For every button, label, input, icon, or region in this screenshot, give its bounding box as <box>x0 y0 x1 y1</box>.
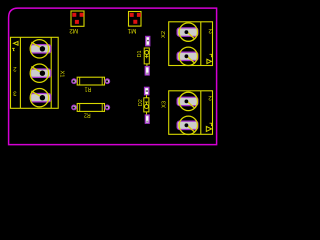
pad X2.1 <box>177 47 198 65</box>
svg-text:X3: X3 <box>162 101 168 108</box>
connector X3 <box>169 91 213 135</box>
connector X1 <box>11 37 59 108</box>
pad X3.2 <box>177 92 198 110</box>
diode D2 body <box>144 95 149 115</box>
svg-text:X2: X2 <box>161 31 167 38</box>
svg-text:D2: D2 <box>138 99 144 106</box>
R2 lead pad left <box>72 105 77 110</box>
pad X2.2 <box>177 23 198 41</box>
pad X3.1 <box>177 116 198 134</box>
X2 pin label 1 <box>210 54 213 57</box>
X1 pin-1 triangle marker <box>14 41 19 45</box>
svg-text:M1: M1 <box>127 27 136 34</box>
X3 pin-1 triangle marker <box>206 126 211 131</box>
R1 lead pad right <box>105 79 110 84</box>
connector X2 <box>169 22 213 66</box>
D1 pad 2 (bottom) <box>145 67 149 76</box>
R2 lead pad right <box>105 105 110 110</box>
svg-text:2: 2 <box>13 65 17 72</box>
diode D1 body <box>144 48 149 66</box>
pad X1.3 <box>30 89 51 107</box>
D2 pad 2 (bottom) <box>145 115 149 123</box>
svg-text:X1: X1 <box>59 70 65 77</box>
resistor R2 <box>74 104 107 112</box>
mount pad M1 <box>129 12 142 27</box>
svg-text:D1: D1 <box>137 50 143 57</box>
X2 pin-1 triangle marker <box>207 59 211 63</box>
svg-text:2: 2 <box>208 94 212 101</box>
svg-text:M2: M2 <box>69 27 78 34</box>
board outline <box>9 8 217 145</box>
X3 pin label 1 <box>210 123 213 126</box>
mount pad M2 <box>71 11 84 26</box>
X1 pin label 1 <box>12 48 15 51</box>
R1 lead pad left <box>72 79 77 84</box>
svg-text:R2: R2 <box>84 111 91 118</box>
D1 pad 1 (top) <box>146 36 150 45</box>
svg-text:2: 2 <box>208 27 212 34</box>
svg-text:3: 3 <box>13 90 17 97</box>
D2 pad 1 (top) <box>145 87 149 95</box>
svg-text:R1: R1 <box>84 86 91 93</box>
resistor R1 <box>74 77 107 85</box>
pad X1.1 <box>30 40 51 58</box>
pad X1.2 <box>30 64 51 82</box>
